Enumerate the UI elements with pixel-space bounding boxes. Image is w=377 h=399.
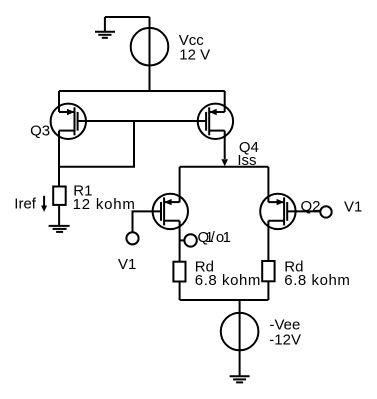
wire rail to Q3 drain xyxy=(58,91,60,112)
svg-text:-12V: -12V xyxy=(269,332,301,349)
transistor Q1 xyxy=(153,194,188,229)
terminal o1 output xyxy=(184,234,196,246)
wire Vcc rail top xyxy=(59,90,225,92)
svg-text:6.8 kohm: 6.8 kohm xyxy=(195,272,261,289)
label Rd left xyxy=(195,258,261,288)
ground GND top-left xyxy=(95,17,115,38)
transistor Q4 xyxy=(198,104,233,139)
label -Vee -12V xyxy=(269,317,301,349)
svg-text:1: 1 xyxy=(223,229,231,246)
wire Q2 source down xyxy=(267,221,269,261)
wire Q1 gate lead xyxy=(133,211,162,232)
wire Q4 source with Iss arrow xyxy=(221,131,228,167)
wire R1 to ground xyxy=(58,205,60,226)
terminal V1 input right xyxy=(320,206,331,217)
label Iref with arrow xyxy=(14,196,47,213)
svg-text:12 kohm: 12 kohm xyxy=(73,196,136,213)
resistor R1 xyxy=(53,187,65,205)
svg-text:V1: V1 xyxy=(344,198,362,215)
wire o1 stub xyxy=(180,239,185,241)
ground GND bottom xyxy=(230,376,250,382)
transistor Q2 xyxy=(260,194,295,229)
wire ground to Vcc top xyxy=(105,16,150,18)
resistor Rd left xyxy=(173,262,185,282)
wire Iss rail xyxy=(180,166,269,168)
svg-text:/: / xyxy=(211,229,216,246)
wire Q2 gate lead xyxy=(287,210,320,212)
label Vcc 12 V xyxy=(179,32,210,64)
svg-text:Q3: Q3 xyxy=(30,123,50,140)
svg-text:12 V: 12 V xyxy=(179,47,210,64)
wire Q3 source down to R1 xyxy=(58,131,60,187)
voltage source Vcc xyxy=(131,17,169,91)
label Rd right xyxy=(284,258,350,288)
wire rail to Q1 drain xyxy=(179,167,181,202)
label R1 12 kohm xyxy=(73,183,136,214)
resistor Rd right xyxy=(262,261,274,281)
svg-text:V1: V1 xyxy=(118,256,136,273)
wire Rd right to bottom rail xyxy=(267,281,269,300)
svg-text:Q2: Q2 xyxy=(301,198,321,215)
wire Rd left to bottom rail xyxy=(179,282,181,301)
transistor Q3 xyxy=(51,104,86,139)
svg-text:6.8 kohm: 6.8 kohm xyxy=(284,272,350,289)
svg-text:Iref: Iref xyxy=(14,196,37,213)
wire bottom rail xyxy=(180,299,269,301)
wire Q3 gate-drain tie xyxy=(59,121,134,167)
wire Q1 source down xyxy=(179,221,181,262)
wire gate tie Q3-Q4 xyxy=(78,120,207,122)
voltage source -Vee xyxy=(221,300,259,376)
wire rail to Q4 drain xyxy=(224,91,226,112)
ground GND at R1 xyxy=(49,226,70,232)
wire rail to Q2 drain xyxy=(267,167,269,202)
terminal V1 input left xyxy=(126,232,138,244)
label Q1/o1 xyxy=(198,229,231,246)
